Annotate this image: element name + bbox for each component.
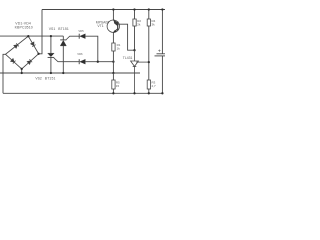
capacitor C1 (output filter) (155, 10, 166, 94)
svg-text:BT151: BT151 (45, 76, 56, 80)
emitter arrow of VT1 (113, 30, 116, 33)
transistor VT1 MPSA06 (107, 10, 134, 51)
svg-text:2,7: 2,7 (152, 84, 157, 88)
node VS2 cathode on AC2 (50, 72, 52, 74)
node collector on top rail (112, 8, 114, 10)
svg-text:3k: 3k (152, 23, 156, 27)
svg-text:VD6: VD6 (77, 52, 83, 56)
resistor R1 (emitter) (112, 43, 115, 73)
bridge rectifier VD1-VD4 KBPC3510 diodes on diamond (10, 42, 35, 64)
svg-text:15: 15 (116, 84, 120, 88)
resistor R2 (top rail to base/TL431 cathode) (133, 10, 136, 51)
node R2 on top rail (133, 8, 135, 10)
diode VD1 top-left side (L to T) (14, 43, 19, 48)
svg-text:BT151: BT151 (58, 27, 69, 31)
svg-text:VS1: VS1 (49, 27, 56, 31)
plus mark of C1 (158, 50, 160, 52)
wire DC+ vertical from top rail to bridge right corner (39, 10, 42, 54)
node bridge right corner (37, 53, 39, 55)
diode VD5 (cathode left, on VS1 gate line) (79, 34, 98, 62)
diode VD6 (cathode left, on VS2 gate line) (79, 59, 113, 64)
node ref divider junction (148, 61, 150, 63)
node bridge bottom corner (21, 68, 23, 70)
node C1 on top rail (161, 8, 163, 10)
node base / R2 / TL431 cathode (133, 49, 135, 51)
bridge VD1-VD4 diamond sides (6, 36, 39, 69)
op-amp U1 TL431 shunt regulator (131, 50, 149, 93)
svg-text:1k: 1k (117, 47, 121, 51)
node C1 on bottom rail (161, 92, 163, 94)
node R3 on bottom rail (148, 92, 150, 94)
node R5 on bottom rail (112, 92, 114, 94)
wire bridge bottom stub (21, 69, 23, 73)
diode VD3 bottom-left side (L to B) (10, 59, 15, 64)
svg-text:TL431: TL431 (123, 56, 133, 60)
node bridge bottom on AC2 wire (21, 72, 23, 74)
resistor R4 (top rail to ref divider) (147, 10, 150, 81)
node VD5/VD6 anode junction (97, 61, 99, 63)
node gate net to emitter line (112, 61, 114, 63)
diode VD4 bottom-right side (B to R) (27, 59, 32, 64)
node VS1 anode on AC2 (62, 72, 64, 74)
base-collector ink blob of VT1 (114, 20, 118, 26)
wire DC- from bridge left corner down to bottom rail (3, 54, 6, 93)
wire AC2 / common horizontal (0, 72, 140, 74)
thyristor VS1 BT151 (cathode up to AC1 wire, anode down) (60, 36, 66, 73)
resistor R3 (lower right of divider) (147, 80, 150, 93)
node VS2 anode on AC1 (50, 35, 52, 37)
thyristor VS2 BT151 (anode on AC1 wire, cathode down) (48, 36, 55, 73)
wire VS2 gate to VD6 (54, 58, 79, 62)
wire bottom rail (3, 92, 162, 94)
resistor R5 (lower left, AC2 to bottom rail) (112, 73, 115, 93)
node emitter line on AC2 wire (112, 72, 114, 74)
node R4 on top rail (148, 8, 150, 10)
svg-text:VD5: VD5 (78, 29, 84, 33)
svg-text:2k: 2k (137, 23, 141, 27)
wire VS1 gate to VD5 (66, 36, 79, 39)
node TL431 anode on bottom rail (133, 92, 135, 94)
wire top rail (42, 9, 165, 11)
svg-text:KBPC3510: KBPC3510 (15, 26, 33, 30)
diode VD2 top-right side (T to R) (31, 42, 36, 47)
node bridge top corner (27, 35, 29, 37)
wire AC1 horizontal (left input) (0, 35, 63, 37)
svg-text:VT1: VT1 (97, 24, 103, 28)
svg-text:VS2: VS2 (35, 76, 42, 80)
